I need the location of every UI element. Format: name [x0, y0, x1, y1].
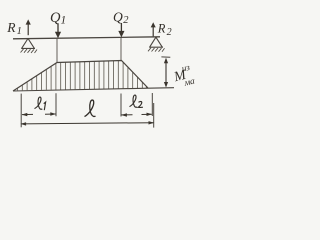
ground hatching left — [21, 49, 38, 53]
svg-text:Q: Q — [113, 9, 123, 24]
moment diagram hatching — [18, 61, 147, 91]
support B (right) — [149, 37, 163, 47]
label l1 (script ell) — [35, 97, 46, 110]
label M^iz_max — [170, 61, 199, 90]
moment diagram outline (trapezoid) — [13, 61, 148, 92]
force Q2 arrow — [118, 23, 124, 37]
dimension l1: extension lines — [20, 94, 22, 128]
svg-text:2: 2 — [123, 15, 129, 26]
ground hatching right — [148, 48, 165, 52]
svg-text:R: R — [157, 22, 166, 36]
label l2 (script ell) — [130, 95, 143, 107]
dimension l2: arrows — [121, 113, 152, 117]
dimension l2: extension lines — [120, 94, 122, 117]
Mmax dimension: top tick — [161, 56, 170, 58]
construction line under Q2 — [120, 38, 122, 61]
moment diagram baseline, extended right — [13, 88, 174, 91]
beam line — [13, 37, 160, 39]
paper background — [0, 0, 195, 131]
force Q1 arrow — [55, 23, 61, 38]
svg-text:1: 1 — [61, 14, 67, 26]
svg-text:2: 2 — [167, 27, 172, 38]
reaction R2 arrow — [151, 22, 156, 36]
svg-text:Q: Q — [50, 10, 61, 26]
svg-text:1: 1 — [17, 26, 22, 37]
construction line under Q1 — [56, 39, 58, 63]
reaction R1 arrow — [26, 19, 31, 35]
dimension l1: arrows — [22, 112, 56, 116]
svg-text:R: R — [6, 20, 16, 35]
overall dimension l: extension lines — [153, 103, 155, 128]
Mmax dimension arrow (double-headed) — [164, 58, 168, 88]
overall dimension l: line with outward arrowheads — [20, 121, 154, 126]
support A (left pin) — [21, 39, 35, 49]
label l (big script ell) — [85, 100, 96, 117]
